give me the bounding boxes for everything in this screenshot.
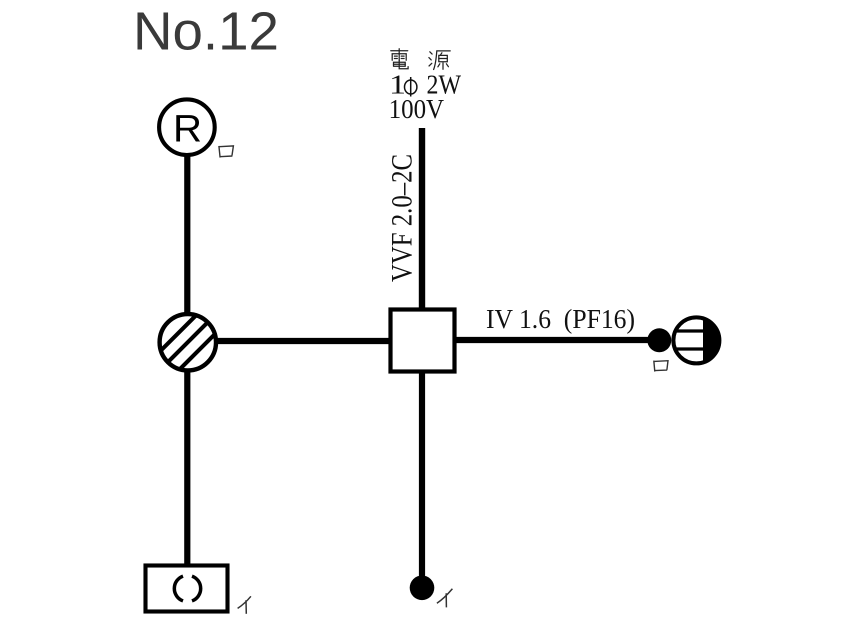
power source label 1φ2W [389,70,461,100]
junction box (hatched circle) [160,314,216,370]
wire: outlet box down to switch イ [419,370,425,580]
label ロ (katakana) for switch [654,361,668,372]
wire: lamp receptacle R to junction box [184,153,190,316]
svg-text:IV 1.6 (PF16): IV 1.6 (PF16) [486,304,635,334]
power source label 源 (kanji, drawn) [429,51,450,70]
wire: junction box to outlet box (horizontal) [214,338,392,344]
svg-text:VVF 2.0–2C: VVF 2.0–2C [387,154,419,282]
wall outlet (circle, right segment filled, two bars) [673,317,719,363]
cable label VVF 2.0-2C (rotated) [387,154,419,282]
label イ (katakana) for switch [437,589,453,608]
wire: outlet box right to switch/outlet (IV in PF16) [452,337,650,343]
outlet box B1 (square) [391,310,455,372]
ceiling rosette, square type (rect with broken circle) [146,566,228,612]
svg-text:R: R [173,109,202,151]
label イ (katakana) for ceiling rosette [238,596,251,614]
wire: junction box down to ceiling rosette [184,368,190,566]
junction box hatch lines [157,293,218,392]
svg-text:100V: 100V [389,94,445,124]
power source label 電 (kanji, drawn) [391,49,408,69]
power source label 100V [389,94,445,124]
switch ロ (filled dot on wall) [647,328,671,352]
cable label IV 1.6 (PF16) [486,304,635,334]
lamp receptacle R [159,99,215,155]
switch イ (filled dot) [410,576,435,601]
label ロ (katakana) for receptacle R [219,146,234,158]
phi symbol of 1φ2W (drawn) [405,77,417,97]
title No.12 [133,2,279,62]
wire: power feed vertical (source to outlet box) [419,128,425,312]
svg-text:No.12: No.12 [133,2,279,62]
